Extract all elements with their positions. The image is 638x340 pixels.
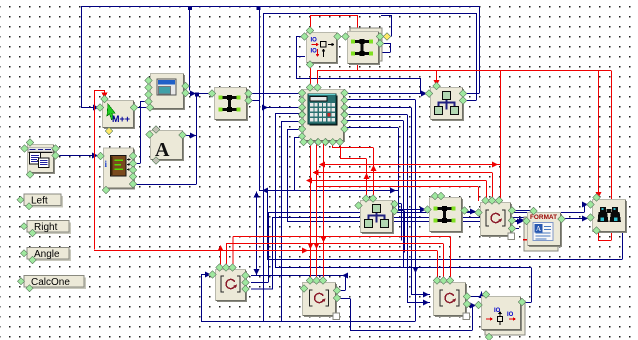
svg-text:M++: M++: [112, 114, 130, 124]
svg-text:IO: IO: [507, 312, 514, 318]
svg-text:Left: Left: [31, 196, 48, 207]
svg-text:CalcOne: CalcOne: [31, 277, 70, 288]
svg-text:IO: IO: [311, 38, 318, 44]
svg-text:IO: IO: [311, 49, 318, 55]
svg-text:Right: Right: [34, 222, 58, 233]
svg-text:Angle: Angle: [34, 249, 60, 260]
svg-text:FORMAT: FORMAT: [530, 214, 557, 221]
svg-text:A: A: [536, 224, 542, 233]
